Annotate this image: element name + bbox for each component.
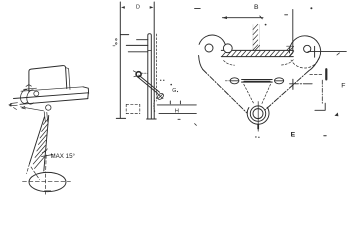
shackle pin mark — [14, 106, 26, 109]
clamp body rect — [148, 34, 152, 119]
B left arrowhead — [222, 16, 227, 19]
small mark on centerline — [337, 53, 340, 55]
left lobe hole — [205, 44, 213, 52]
ellipse bottom tick — [45, 190, 51, 192]
swing cone hatch — [33, 119, 48, 168]
svg-text:MAX 15°: MAX 15° — [51, 153, 76, 160]
right body edge diagonal — [265, 71, 309, 110]
clamp crossbar — [148, 49, 152, 51]
web hatch — [253, 24, 260, 50]
F bracket top dashes — [310, 74, 323, 76]
F bottom arrow — [335, 113, 339, 117]
small tick — [113, 45, 115, 47]
angle leader line — [42, 155, 54, 157]
web plate thickness edge — [66, 68, 70, 90]
flange top edge — [221, 49, 293, 51]
hook eye oval — [156, 92, 164, 100]
web edges — [253, 25, 260, 51]
right oval center line — [275, 80, 283, 82]
bar dashdot lead left — [225, 80, 229, 82]
hidden box dashed — [126, 104, 140, 113]
right vertical line — [153, 2, 155, 119]
small dots near G — [160, 80, 161, 81]
hanging shackle diagonal — [137, 75, 160, 93]
bottom outer circle — [247, 107, 269, 124]
tick marks above — [170, 101, 180, 104]
clamp top line — [24, 85, 37, 90]
right arrowhead — [150, 6, 154, 9]
svg-text:D: D — [136, 4, 140, 10]
flange front bottom edge — [20, 99, 88, 105]
flange bottom edge — [221, 56, 293, 58]
F dashdot vertical — [321, 80, 323, 104]
right line foot — [147, 118, 157, 120]
left oval center line — [231, 80, 239, 82]
extension arrow dash — [285, 14, 288, 16]
bottom centerline — [257, 102, 259, 132]
dotted arc — [154, 101, 155, 112]
weld dots — [115, 39, 117, 41]
svg-text:B: B — [254, 4, 259, 11]
shackle pin — [136, 72, 141, 77]
flange right nub hatch — [287, 46, 294, 50]
ellipse horizontal dashed axis — [23, 180, 71, 182]
arm line 2 — [137, 39, 148, 41]
hook eye cross — [158, 94, 163, 98]
swing ellipse — [29, 172, 66, 191]
dot right top — [310, 7, 312, 9]
right lobe lower dashed — [291, 58, 319, 69]
left lobe arc — [199, 35, 226, 52]
right plus mark vertical — [292, 79, 294, 89]
right bar oval — [275, 78, 284, 84]
left body edge curve — [199, 56, 203, 70]
bottom tiny marks — [255, 136, 256, 137]
right leader horizontal — [290, 83, 313, 85]
arm line 4 — [128, 51, 148, 53]
clamp bottom line — [21, 107, 44, 111]
right lobe hole — [304, 45, 311, 52]
inner dashed V left — [244, 84, 254, 104]
dimension line B — [222, 17, 263, 19]
svg-text:F: F — [341, 83, 345, 90]
clamp hole — [34, 91, 39, 96]
hole tick — [314, 46, 316, 57]
clamp plate ellipse 2 — [27, 90, 34, 104]
bottom tab — [257, 125, 259, 129]
small arrow below — [178, 118, 180, 120]
dashed diagonal into ellipse — [27, 164, 40, 180]
right lobe arc solid — [289, 36, 320, 58]
shackle arrow tip — [8, 103, 11, 106]
left body edge diagonal — [203, 70, 247, 114]
web plate — [29, 66, 67, 92]
swing cone angle arc — [43, 149, 48, 153]
F bracket bottom — [315, 103, 325, 110]
roller circle — [223, 44, 232, 53]
svg-text:E: E — [291, 132, 296, 139]
dashed inner arc left — [224, 61, 235, 66]
flange right end cap — [83, 87, 89, 99]
left vertical line — [119, 2, 121, 118]
top arm line — [121, 34, 129, 36]
hook eye circle — [46, 105, 51, 110]
flange hatch — [222, 51, 294, 56]
B right end mark — [260, 16, 263, 19]
dashed inner arc right — [282, 60, 294, 65]
lobe centerline horizontal — [308, 51, 346, 53]
pin dash-dot lead — [142, 72, 148, 74]
right lobe extension line — [292, 10, 294, 52]
flange back edge — [21, 87, 83, 91]
load bar top — [242, 79, 273, 81]
small mark right of E — [324, 135, 326, 137]
F bracket thick bar — [325, 69, 327, 79]
right body edge curve — [309, 58, 320, 72]
left bar oval — [230, 78, 239, 84]
top left tick — [195, 8, 201, 10]
left arrowhead — [121, 6, 125, 9]
swing cone right edge — [44, 116, 49, 172]
shackle ring outer — [250, 106, 265, 121]
hidden dashed line — [156, 34, 158, 101]
clamp plate ellipse 1 — [21, 90, 28, 104]
hook shank double line — [44, 112, 47, 122]
svg-text:G: G — [172, 88, 176, 94]
upper horizontal line H — [157, 104, 196, 106]
vertical dashed centerline — [45, 155, 48, 195]
swing cone left edge — [30, 117, 45, 164]
shackle ring inner — [253, 109, 263, 119]
pin left marks — [133, 71, 136, 77]
load bar bottom — [242, 80, 273, 83]
small mark under B line — [265, 24, 267, 26]
flange front top edge — [14, 93, 89, 99]
arm line 3 — [126, 44, 148, 46]
inner dashed V right — [262, 84, 271, 104]
svg-text:H: H — [175, 108, 179, 114]
small end mark — [195, 124, 197, 126]
shackle at left — [10, 103, 18, 106]
left line foot — [116, 117, 125, 119]
lower horizontal line H — [159, 113, 196, 115]
